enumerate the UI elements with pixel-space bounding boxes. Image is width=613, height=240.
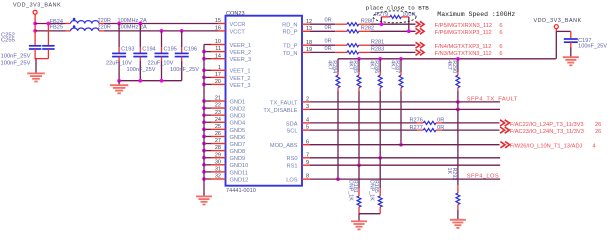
note ellipse place close to BTB	[373, 11, 416, 23]
svg-text:TX_FAULT: TX_FAULT	[270, 100, 298, 106]
pin 22 GND2	[202, 103, 245, 113]
svg-text:F/W26/IO_L10N_T1_13/ADJ: F/W26/IO_L10N_T1_13/ADJ	[510, 144, 583, 150]
svg-text:VCCR: VCCR	[230, 22, 246, 28]
svg-text:GND4: GND4	[230, 121, 246, 127]
wire TX_DISABLE divider vertical	[457, 109, 459, 185]
pin 13 RD_P	[282, 26, 312, 36]
pin 7 RS0	[287, 152, 310, 162]
svg-text:6: 6	[306, 139, 309, 145]
svg-text:VEET_3: VEET_3	[230, 83, 251, 89]
ferrite bead FB24	[50, 18, 104, 25]
wire line5 SCL left	[310, 129, 417, 131]
svg-text:22uF_10V: 22uF_10V	[148, 60, 174, 66]
pin 5 SCL	[287, 125, 310, 135]
pin 29 GND9	[202, 152, 245, 162]
resistor R287 4K7 pull-up	[389, 59, 403, 91]
capacitor C252	[29, 45, 41, 47]
svg-text:DNP_1K: DNP_1K	[347, 180, 353, 201]
resistor R279 100R (AC coupling bridge)	[381, 15, 408, 31]
svg-text:28: 28	[215, 145, 221, 151]
svg-text:GND2: GND2	[230, 106, 246, 112]
svg-text:CON23: CON23	[226, 11, 245, 17]
svg-text:Maximum Speed :10GHz: Maximum Speed :10GHz	[437, 11, 515, 18]
junction R290/line2	[456, 100, 460, 104]
svg-text:2: 2	[306, 97, 309, 103]
wire VDD vertical drop (left)	[34, 20, 36, 31]
svg-text:14: 14	[215, 53, 221, 59]
svg-text:GND9: GND9	[230, 156, 246, 162]
pin 24 GND4	[202, 117, 245, 127]
svg-text:DNP_1K: DNP_1K	[368, 180, 374, 201]
wire line5 right	[442, 129, 500, 131]
pin 26 GND6	[202, 131, 245, 141]
svg-text:6: 6	[499, 51, 502, 57]
wire C196 upper lead	[181, 31, 183, 47]
svg-text:0R: 0R	[325, 18, 332, 24]
wire VDD to C197 jog	[556, 30, 571, 32]
svg-text:GND11: GND11	[230, 170, 248, 176]
svg-text:GND5: GND5	[230, 128, 246, 134]
svg-text:GND8: GND8	[230, 149, 246, 155]
svg-text:RD_P: RD_P	[282, 30, 297, 36]
svg-text:GND7: GND7	[230, 142, 246, 148]
svg-text:MOD_ABS: MOD_ABS	[270, 143, 298, 149]
svg-text:VCCT: VCCT	[230, 29, 246, 35]
wire line6 MOD_ABS	[310, 144, 500, 146]
wire R292 to ground	[457, 210, 459, 219]
net port F/P5/MGTXRXN3_112 (pin 12)	[416, 21, 425, 27]
ground symbol below C193	[110, 84, 128, 86]
svg-text:23: 23	[215, 110, 221, 116]
svg-text:GND10: GND10	[230, 163, 249, 169]
svg-text:GND3: GND3	[230, 114, 246, 120]
svg-text:6: 6	[499, 23, 502, 29]
wire line4 SDA left	[310, 122, 417, 124]
net port F/N4/MGTXTXP3_112 (pin 18)	[416, 42, 425, 48]
ferrite bead FB25	[50, 25, 104, 31]
svg-text:4K7: 4K7	[326, 60, 332, 70]
svg-text:VEET_2: VEET_2	[230, 76, 251, 82]
capacitor C197	[564, 38, 578, 40]
resistor R277 0R	[423, 129, 436, 132]
svg-text:F/N3/MGTXTXN3_112: F/N3/MGTXTXN3_112	[435, 51, 492, 57]
resistor R286 4K7 pull-up	[368, 59, 382, 91]
ground symbol below R292	[450, 219, 466, 221]
svg-text:F/AC22/IO_L24P_T3_11/3V3: F/AC22/IO_L24P_T3_11/3V3	[510, 122, 584, 128]
svg-text:C194: C194	[142, 47, 155, 53]
pin 21 GND1	[202, 96, 245, 106]
svg-text:RS0: RS0	[287, 156, 298, 162]
wire R284 to line8 (LOS)	[337, 91, 339, 179]
wire R285/R181 vertical continuation	[358, 165, 360, 188]
junction R279/line12	[380, 22, 384, 26]
resistor R280 0R	[347, 23, 359, 26]
svg-text:SCL: SCL	[287, 129, 298, 135]
svg-text:74441-0010: 74441-0010	[226, 188, 256, 194]
wire pin line y=45.2 left segment	[310, 44, 335, 46]
svg-text:27: 27	[215, 138, 221, 144]
wire bus to ground	[118, 81, 120, 85]
wire row1 to FB24	[35, 23, 65, 25]
resistor R281 0R	[347, 44, 359, 47]
svg-text:C196: C196	[184, 47, 197, 53]
svg-text:TX_DISABLE: TX_DISABLE	[263, 108, 297, 114]
svg-text:R277: R277	[410, 125, 423, 131]
capacitor C195	[155, 52, 169, 54]
pin 19 TD_N	[283, 47, 312, 57]
capacitor C194	[133, 52, 147, 54]
svg-text:R279: R279	[375, 12, 388, 18]
svg-text:220R: 220R	[98, 25, 111, 31]
resistor R290 4K7 pull-up	[446, 59, 460, 91]
resistor R185 DNP_1K	[368, 180, 382, 214]
junction rail x=457.9	[456, 57, 460, 61]
wire line3 TX_DISABLE	[310, 108, 500, 110]
wire pin line y=24.2 right segment	[370, 23, 415, 25]
wire row2 to FB25	[35, 30, 65, 32]
wire pin line y=24.2 left segment	[310, 23, 335, 25]
junction C195 tap	[160, 29, 164, 33]
pin 12 RD_N	[282, 19, 312, 29]
pin 32 GND12	[202, 174, 248, 184]
svg-text:GND6: GND6	[230, 135, 246, 141]
svg-text:15: 15	[215, 18, 221, 24]
svg-text:10: 10	[215, 39, 221, 45]
svg-text:SDA: SDA	[286, 121, 298, 127]
svg-text:9: 9	[306, 160, 309, 166]
wire pin line y=52.4 right segment	[370, 51, 415, 53]
svg-text:TD_P: TD_P	[283, 44, 298, 50]
svg-text:F/P6/MGTXRXP3_112: F/P6/MGTXRXP3_112	[435, 30, 492, 36]
pin 9 RS1	[287, 160, 310, 170]
svg-text:RS1: RS1	[287, 164, 298, 170]
pin 25 GND5	[202, 124, 245, 134]
svg-text:GND1: GND1	[230, 99, 246, 105]
pin 28 GND8	[202, 145, 245, 155]
capacitor C197 upper lead	[570, 31, 572, 39]
junction C195/bus	[160, 79, 164, 83]
svg-text:VEER_3: VEER_3	[230, 57, 252, 63]
pin 6 MOD_ABS	[270, 139, 310, 149]
wire line4 right	[442, 122, 500, 124]
svg-text:FB25: FB25	[50, 25, 63, 31]
wire C196 lower lead	[181, 57, 183, 61]
pin 10 VEER_1	[204, 39, 251, 49]
svg-text:6: 6	[499, 44, 502, 50]
svg-text:16: 16	[215, 26, 221, 32]
svg-text:100MHz 2A: 100MHz 2A	[118, 25, 147, 31]
ground symbol below C252/C255	[27, 72, 45, 74]
svg-text:VDD_3V3_BANK: VDD_3V3_BANK	[534, 18, 582, 24]
svg-text:17: 17	[215, 72, 221, 78]
svg-text:3: 3	[306, 104, 309, 110]
net port F/AC22/IO_L24P_T3_11/3V3 (pin 4)	[500, 120, 509, 126]
wire C193 lower lead	[118, 57, 120, 61]
wire line9 RS1	[310, 164, 500, 166]
svg-text:place close to BTB: place close to BTB	[366, 4, 430, 11]
capacitor C196	[175, 52, 189, 54]
svg-text:0R: 0R	[325, 46, 332, 52]
wire VDD to rail riser	[555, 31, 557, 58]
wire pin line y=45.2 right segment	[370, 44, 415, 46]
wire C197 lower lead	[570, 42, 572, 47]
junction R286/line7	[378, 156, 382, 160]
pin 15 VCCR	[215, 18, 246, 28]
resistor R283 0R	[347, 51, 359, 54]
svg-text:0R: 0R	[325, 25, 332, 31]
junction R285/line9	[357, 163, 361, 167]
svg-text:8: 8	[306, 174, 309, 180]
svg-text:4K7: 4K7	[347, 60, 353, 70]
pin 2 TX_FAULT	[270, 97, 310, 107]
svg-text:R290: R290	[451, 60, 457, 73]
wire 3V3 pull-up rail	[338, 58, 556, 60]
pin 3 TX_DISABLE	[263, 104, 310, 114]
svg-text:VEER_1: VEER_1	[230, 43, 252, 49]
svg-text:4: 4	[306, 118, 309, 124]
net port F/P6/MGTXRXP3_112 (pin 13)	[416, 28, 425, 34]
wire R286 to line7 (RS0)	[379, 91, 381, 158]
svg-text:C193: C193	[121, 47, 134, 53]
svg-text:24: 24	[215, 117, 221, 123]
pin 30 GND10	[202, 159, 248, 169]
svg-text:22: 22	[215, 103, 221, 109]
svg-text:20: 20	[215, 79, 221, 85]
wire pin line y=52.4 left segment	[310, 51, 335, 53]
svg-text:4K7: 4K7	[389, 60, 395, 70]
svg-text:7: 7	[306, 152, 309, 158]
wire DNP join to ground	[359, 213, 380, 215]
wire pin line y=31.3 right segment	[370, 30, 415, 32]
capacitor C255	[42, 45, 54, 47]
ground symbol below C197	[563, 56, 579, 58]
pin 20 VEET_3	[202, 79, 250, 89]
power symbol VDD_3V3_BANK (left)	[13, 3, 61, 21]
resistor R284 4K7 pull-up	[326, 59, 340, 91]
resistor R285 4K7 pull-up	[347, 59, 361, 91]
svg-text:100R: 100R	[402, 12, 415, 18]
svg-text:F/P5/MGTXRXN3_112: F/P5/MGTXRXN3_112	[435, 23, 492, 29]
connector CON23 body	[226, 16, 303, 186]
svg-text:26: 26	[595, 129, 601, 135]
capacitor C255 upper lead	[47, 22, 51, 26]
net port F/AC23/IO_L24N_T3_11/3V3 (pin 5)	[500, 127, 509, 133]
pin 18 TD_P	[283, 40, 312, 50]
pin 17 VEET_2	[202, 72, 250, 82]
svg-text:LOS: LOS	[286, 178, 298, 184]
pin 16 VCCT	[215, 26, 246, 36]
pin 4 SDA	[286, 118, 310, 128]
power symbol VDD_3V3_BANK (right)	[534, 18, 582, 32]
junction C194/bus	[138, 79, 142, 83]
junction VDD/row1	[33, 22, 37, 26]
wire C195 lower lead	[161, 57, 163, 61]
svg-text:100nF_25V: 100nF_25V	[1, 61, 31, 67]
svg-text:26: 26	[595, 122, 601, 128]
svg-text:C255: C255	[1, 38, 15, 44]
svg-text:6: 6	[499, 30, 502, 36]
junction rail x=380.2	[378, 57, 382, 61]
svg-text:100nF_25V: 100nF_25V	[1, 54, 31, 60]
junction rail x=359.0	[357, 57, 361, 61]
wire cap ground bus	[119, 80, 182, 82]
resistor R181 DNP_1K	[347, 180, 361, 214]
svg-text:29: 29	[215, 152, 221, 158]
pin 23 GND3	[202, 110, 245, 120]
junction R287/line6	[399, 143, 403, 147]
wire GND bus (connector left)	[203, 45, 205, 196]
junction VDD/row2	[33, 29, 37, 33]
svg-text:100nF_25V: 100nF_25V	[170, 67, 199, 73]
capacitor C193	[112, 52, 126, 54]
net port F/W26/IO_L10N_T1_13/ADJ (pin 6)	[500, 142, 509, 148]
resistor R276 0R	[423, 121, 436, 124]
svg-text:32: 32	[215, 174, 221, 180]
junction line3 tie	[456, 108, 460, 112]
svg-text:F/AC23/IO_L24N_T3_11/3V3: F/AC23/IO_L24N_T3_11/3V3	[510, 129, 584, 135]
wire C193 upper lead	[118, 24, 120, 48]
svg-text:1: 1	[218, 65, 221, 71]
svg-text:30: 30	[215, 159, 221, 165]
pin 31 GND11	[202, 167, 248, 177]
junction C196 tap	[180, 29, 184, 33]
wire R290 to line2	[457, 91, 459, 102]
wire line8 LOS	[310, 178, 500, 180]
svg-text:4K7: 4K7	[368, 60, 374, 70]
pin 14 VEER_3	[202, 53, 251, 63]
wire line2 to line3 tie	[457, 102, 459, 110]
svg-text:TD_N: TD_N	[283, 51, 298, 57]
wire R287 to line6 (MOD_ABS)	[400, 91, 402, 145]
capacitor C252 upper lead	[34, 31, 36, 46]
pin 27 GND7	[202, 138, 245, 148]
svg-text:11: 11	[215, 46, 221, 52]
svg-text:31: 31	[215, 167, 221, 173]
wire line7 RS0	[310, 157, 500, 159]
svg-text:R276: R276	[410, 118, 423, 124]
junction rail x=401.0	[399, 57, 403, 61]
wire FB24 output to pin 15 (VCCR net)	[104, 23, 218, 25]
svg-text:4: 4	[593, 144, 596, 150]
svg-text:C195: C195	[164, 47, 177, 53]
svg-text:100nF_25V: 100nF_25V	[127, 67, 156, 73]
wire FB25 output to pin 16 (VCCT net)	[104, 30, 218, 32]
svg-text:F/N4/MGTXTXP3_112: F/N4/MGTXTXP3_112	[435, 44, 492, 50]
wire R285 to line9 (RS1)	[358, 91, 360, 165]
junction R284/line8	[336, 177, 340, 181]
svg-text:25: 25	[215, 124, 221, 130]
net port F/N3/MGTXTXN3_112 (pin 19)	[416, 50, 425, 56]
svg-text:0R: 0R	[325, 39, 332, 45]
svg-text:SFP4_TX_FAULT: SFP4_TX_FAULT	[467, 96, 518, 102]
wire line2 TX_FAULT	[310, 101, 500, 103]
svg-text:VEET_1: VEET_1	[230, 69, 251, 75]
wire C194 upper lead	[139, 24, 141, 48]
svg-text:VDD_3V3_BANK: VDD_3V3_BANK	[13, 3, 61, 9]
wire C252/C255 lower leads to ground	[34, 49, 36, 59]
junction R279/line13	[407, 29, 411, 33]
svg-text:VEER_2: VEER_2	[230, 50, 252, 56]
pin 11 VEER_2	[202, 46, 251, 56]
resistor R292 1K pull-down	[446, 168, 460, 211]
svg-text:5: 5	[306, 125, 309, 131]
wire C194 lower lead	[139, 57, 141, 61]
junction C194 tap	[138, 22, 142, 26]
svg-text:100nF_25V: 100nF_25V	[578, 44, 607, 50]
wire C195 upper lead	[161, 31, 163, 47]
junction bus/ground	[117, 79, 121, 83]
svg-text:21: 21	[215, 96, 221, 102]
svg-text:RD_N: RD_N	[282, 23, 297, 29]
wire R286/R185 vertical continuation	[379, 158, 381, 188]
svg-text:22uF_10V: 22uF_10V	[106, 60, 132, 66]
ground symbol below R181/R185	[351, 220, 367, 222]
ground symbol below connector	[196, 195, 212, 197]
resistor R282 0R	[347, 30, 359, 33]
svg-text:GND12: GND12	[230, 177, 249, 183]
pin 1 VEET_1	[202, 65, 250, 75]
svg-text:26: 26	[215, 131, 221, 137]
wire pin line y=31.3 left segment	[310, 30, 335, 32]
junction C193 tap	[117, 22, 121, 26]
pin 8 LOS	[286, 174, 310, 184]
svg-text:SFP4_LOS: SFP4_LOS	[467, 173, 499, 179]
